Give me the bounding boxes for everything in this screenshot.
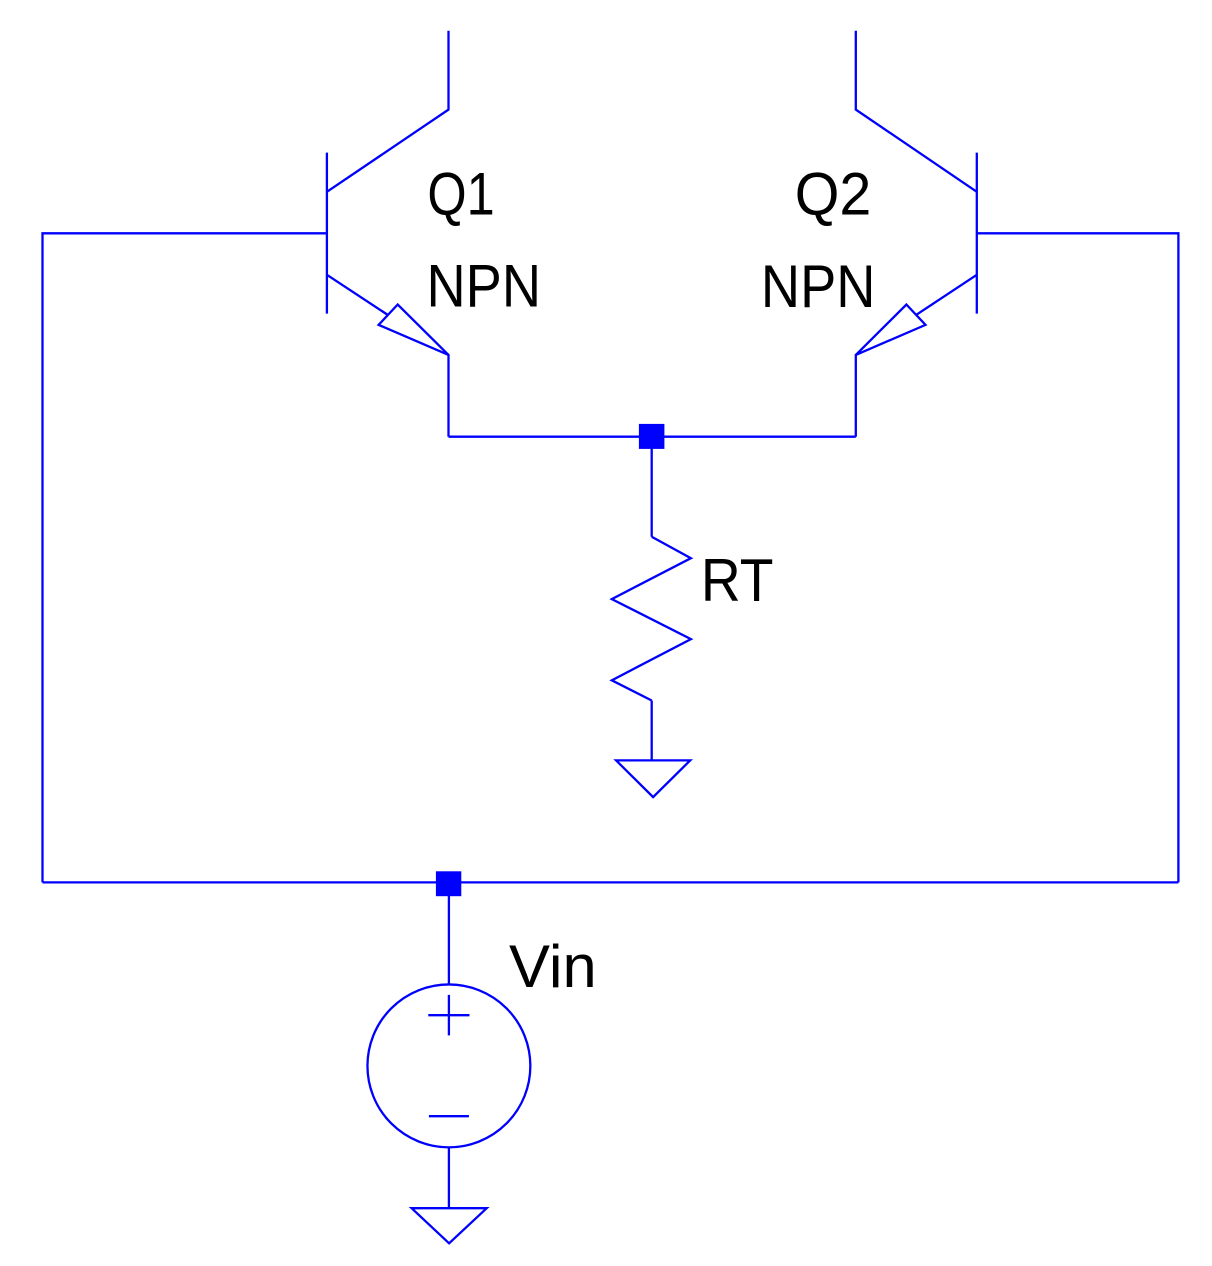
- wire: emitter bus: [449, 436, 856, 438]
- transistor Q2: emitter lead: [856, 275, 977, 437]
- svg-text:NPN: NPN: [427, 253, 542, 320]
- svg-text:Q2: Q2: [795, 161, 872, 227]
- svg-text:Vin: Vin: [509, 933, 597, 1000]
- transistor Q1: emitter lead: [327, 275, 449, 437]
- source Vin: plus sign: [428, 1014, 469, 1016]
- transistor Q1: collector lead: [327, 31, 449, 192]
- resistor RT: bottom lead: [651, 701, 653, 761]
- source Vin: circle body: [367, 984, 530, 1147]
- source Vin: minus sign: [429, 1115, 469, 1117]
- source Vin: bottom lead: [448, 1147, 450, 1208]
- resistor RT: top lead: [651, 437, 653, 537]
- svg-text:RT: RT: [701, 548, 774, 615]
- source Vin: top lead: [448, 882, 450, 984]
- wire: right loop + Q2 base wire: [977, 233, 1179, 882]
- ground (Vin): [412, 1208, 487, 1243]
- transistor Q1: emitter arrow: [379, 305, 449, 355]
- node: bottom wire junction: [436, 871, 461, 896]
- node: emitter bus junction: [639, 424, 665, 449]
- wire: bottom horizontal: [43, 881, 1179, 883]
- transistor Q1: base bar: [326, 153, 328, 314]
- svg-text:NPN: NPN: [761, 253, 876, 320]
- resistor RT: zigzag body: [612, 537, 691, 701]
- svg-text:Q1: Q1: [427, 160, 494, 227]
- transistor Q2: base bar: [976, 153, 978, 314]
- wire: Q1 base wire + left loop: [43, 233, 327, 882]
- transistor Q2: collector lead: [856, 31, 977, 192]
- transistor Q2: emitter arrow: [856, 305, 926, 355]
- ground (RT): [616, 760, 690, 797]
